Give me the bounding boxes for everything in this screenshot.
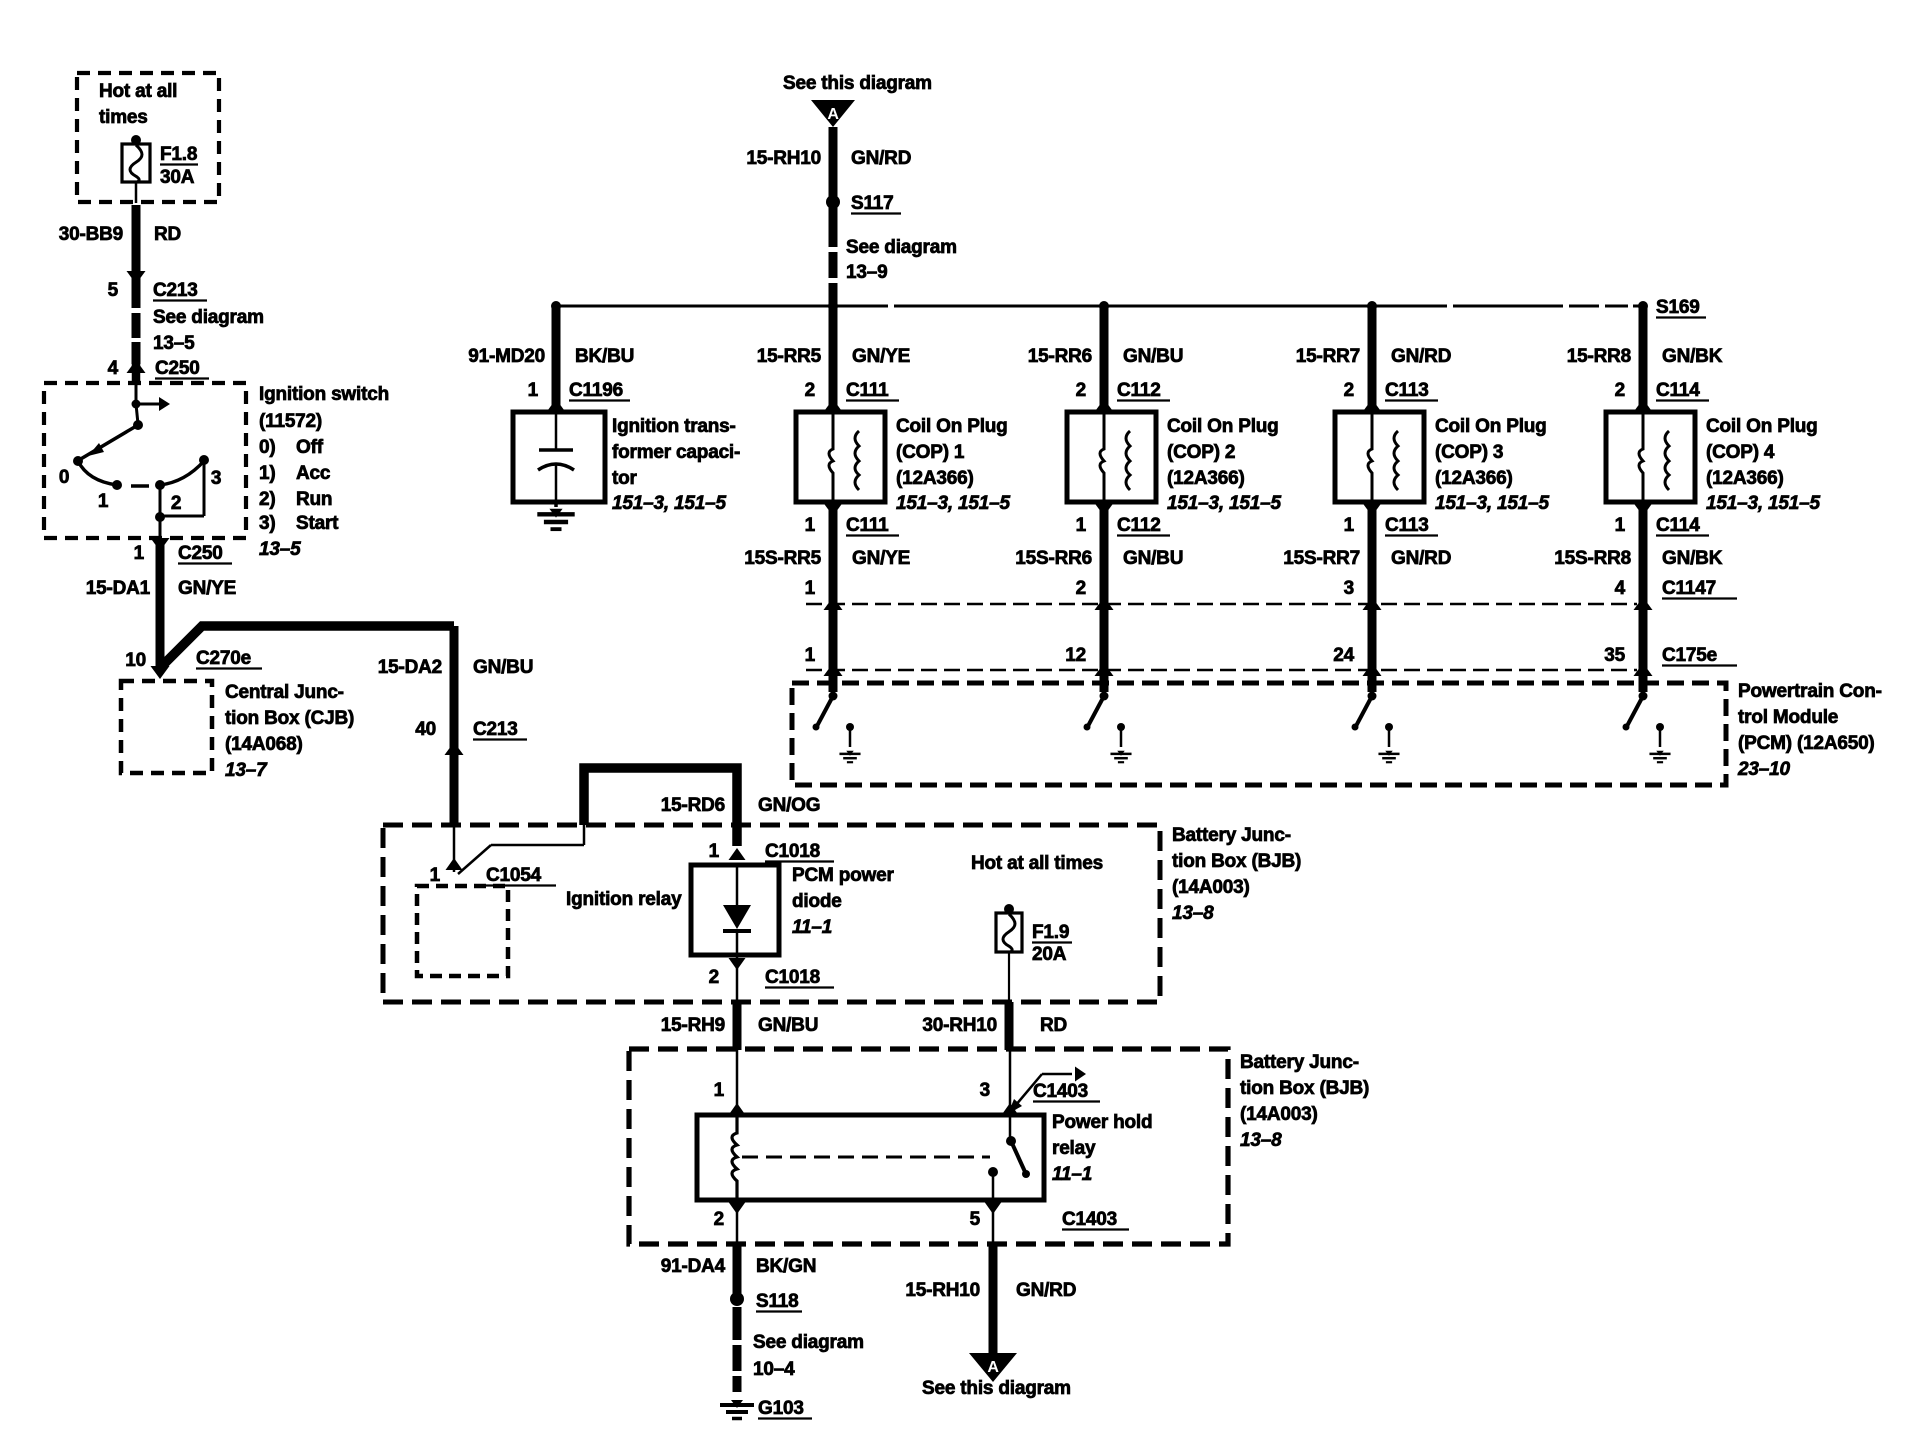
svg-text:151–3, 151–5: 151–3, 151–5 [896, 493, 1010, 514]
svg-text:12: 12 [1065, 645, 1086, 666]
svg-text:C250: C250 [155, 358, 200, 379]
svg-text:23–10: 23–10 [1737, 759, 1790, 780]
svg-text:(14A003): (14A003) [1240, 1104, 1318, 1125]
svg-text:tion Box (BJB): tion Box (BJB) [1172, 851, 1301, 872]
svg-text:20A: 20A [1032, 944, 1067, 965]
svg-text:40: 40 [415, 719, 436, 740]
svg-text:C112: C112 [1117, 380, 1161, 401]
svg-text:C1147: C1147 [1662, 578, 1716, 599]
svg-text:1): 1) [259, 463, 276, 484]
svg-text:15-RR7: 15-RR7 [1296, 346, 1360, 367]
svg-text:(11572): (11572) [259, 411, 322, 432]
svg-text:15-RH10: 15-RH10 [905, 1280, 980, 1301]
svg-text:(12A366): (12A366) [1435, 468, 1513, 489]
svg-text:RD: RD [154, 224, 181, 245]
svg-text:Run: Run [296, 489, 332, 510]
svg-text:2: 2 [171, 493, 181, 514]
svg-text:1: 1 [1615, 515, 1626, 536]
svg-text:2: 2 [714, 1209, 724, 1230]
svg-text:C111: C111 [846, 380, 889, 401]
svg-text:diode: diode [792, 891, 842, 912]
svg-text:A: A [987, 1359, 999, 1376]
svg-text:151–3, 151–5: 151–3, 151–5 [1435, 493, 1549, 514]
svg-text:(12A366): (12A366) [1167, 468, 1245, 489]
svg-text:Ignition switch: Ignition switch [259, 384, 389, 405]
svg-text:Powertrain Con-: Powertrain Con- [1738, 681, 1882, 702]
svg-text:Battery Junc-: Battery Junc- [1172, 825, 1291, 846]
svg-text:15-RH9: 15-RH9 [661, 1015, 725, 1036]
svg-text:C112: C112 [1117, 515, 1161, 536]
svg-text:1: 1 [709, 841, 720, 862]
svg-text:C270e: C270e [196, 648, 251, 669]
svg-text:15-RH10: 15-RH10 [746, 148, 821, 169]
svg-text:C113: C113 [1385, 380, 1429, 401]
svg-text:former capaci-: former capaci- [612, 442, 740, 463]
svg-text:trol Module: trol Module [1738, 707, 1838, 728]
svg-text:4: 4 [1615, 578, 1626, 599]
svg-text:(12A366): (12A366) [1706, 468, 1784, 489]
svg-text:BK/BU: BK/BU [575, 346, 634, 367]
svg-text:C1054: C1054 [486, 865, 542, 886]
svg-text:Hot at all times: Hot at all times [971, 853, 1103, 874]
svg-text:1: 1 [430, 865, 441, 886]
svg-text:Ignition trans-: Ignition trans- [612, 416, 736, 437]
svg-text:S118: S118 [756, 1291, 799, 1312]
svg-text:C1403: C1403 [1033, 1081, 1088, 1102]
svg-text:15-DA1: 15-DA1 [86, 578, 151, 599]
svg-text:C111: C111 [846, 515, 889, 536]
svg-text:(14A003): (14A003) [1172, 877, 1250, 898]
svg-text:S169: S169 [1656, 297, 1700, 318]
svg-text:Off: Off [296, 437, 324, 458]
svg-text:1: 1 [1344, 515, 1355, 536]
svg-text:5: 5 [108, 280, 119, 301]
svg-text:Coil On Plug: Coil On Plug [1167, 416, 1279, 437]
svg-text:C113: C113 [1385, 515, 1429, 536]
svg-text:GN/RD: GN/RD [851, 148, 911, 169]
svg-text:(COP) 2: (COP) 2 [1167, 442, 1235, 463]
svg-text:G103: G103 [758, 1398, 804, 1419]
svg-text:S117: S117 [851, 193, 894, 214]
svg-text:tion Box (BJB): tion Box (BJB) [1240, 1078, 1369, 1099]
svg-text:15S-RR8: 15S-RR8 [1554, 548, 1631, 569]
svg-text:1: 1 [805, 515, 816, 536]
svg-text:GN/YE: GN/YE [852, 548, 910, 569]
svg-text:GN/RD: GN/RD [1391, 346, 1451, 367]
svg-text:15-RR8: 15-RR8 [1567, 346, 1631, 367]
svg-text:times: times [99, 107, 148, 128]
svg-text:13–5: 13–5 [259, 539, 301, 560]
svg-text:C1196: C1196 [569, 380, 623, 401]
svg-text:GN/RD: GN/RD [1391, 548, 1451, 569]
svg-text:GN/BU: GN/BU [758, 1015, 818, 1036]
svg-text:See this diagram: See this diagram [922, 1378, 1071, 1399]
svg-text:GN/BU: GN/BU [1123, 548, 1183, 569]
svg-text:GN/OG: GN/OG [758, 795, 820, 816]
svg-text:C114: C114 [1656, 380, 1700, 401]
svg-text:4: 4 [108, 358, 119, 379]
svg-text:3: 3 [980, 1080, 990, 1101]
svg-text:15S-RR6: 15S-RR6 [1015, 548, 1092, 569]
svg-text:GN/BK: GN/BK [1662, 548, 1723, 569]
svg-text:GN/YE: GN/YE [178, 578, 236, 599]
svg-text:1: 1 [714, 1080, 725, 1101]
svg-text:151–3, 151–5: 151–3, 151–5 [1167, 493, 1281, 514]
svg-text:(COP) 4: (COP) 4 [1706, 442, 1775, 463]
svg-text:(12A366): (12A366) [896, 468, 974, 489]
svg-text:C1018: C1018 [765, 967, 820, 988]
svg-text:Coil On Plug: Coil On Plug [1706, 416, 1818, 437]
svg-text:F1.9: F1.9 [1032, 922, 1069, 943]
svg-text:2: 2 [709, 967, 719, 988]
svg-text:2: 2 [1076, 380, 1086, 401]
svg-text:C114: C114 [1656, 515, 1700, 536]
svg-text:PCM power: PCM power [792, 865, 894, 886]
svg-text:Battery Junc-: Battery Junc- [1240, 1052, 1359, 1073]
svg-text:A: A [827, 106, 839, 123]
svg-text:5: 5 [970, 1209, 981, 1230]
svg-text:1: 1 [805, 578, 816, 599]
svg-text:35: 35 [1604, 645, 1625, 666]
svg-text:1: 1 [805, 645, 816, 666]
svg-text:15-RR5: 15-RR5 [757, 346, 822, 367]
svg-text:Central Junc-: Central Junc- [225, 682, 344, 703]
svg-text:BK/GN: BK/GN [756, 1256, 816, 1277]
svg-text:91-DA4: 91-DA4 [661, 1256, 726, 1277]
svg-text:Start: Start [296, 513, 339, 534]
svg-text:15-RR6: 15-RR6 [1028, 346, 1092, 367]
svg-text:11–1: 11–1 [1052, 1164, 1092, 1185]
svg-text:13–8: 13–8 [1172, 903, 1214, 924]
svg-text:See diagram: See diagram [846, 237, 957, 258]
svg-text:13–9: 13–9 [846, 262, 887, 283]
svg-text:Hot at all: Hot at all [99, 81, 177, 102]
svg-text:GN/BU: GN/BU [1123, 346, 1183, 367]
svg-text:(14A068): (14A068) [225, 734, 303, 755]
svg-text:See this diagram: See this diagram [783, 73, 932, 94]
svg-text:3: 3 [1344, 578, 1354, 599]
svg-text:C1018: C1018 [765, 841, 820, 862]
svg-text:GN/RD: GN/RD [1016, 1280, 1076, 1301]
svg-text:1: 1 [98, 491, 109, 512]
svg-text:2: 2 [805, 380, 815, 401]
svg-text:Ignition relay: Ignition relay [566, 889, 682, 910]
svg-text:tion Box (CJB): tion Box (CJB) [225, 708, 354, 729]
svg-text:151–3, 151–5: 151–3, 151–5 [1706, 493, 1820, 514]
svg-text:C250: C250 [178, 543, 223, 564]
svg-text:24: 24 [1333, 645, 1354, 666]
svg-text:151–3, 151–5: 151–3, 151–5 [612, 493, 726, 514]
svg-text:10–4: 10–4 [753, 1359, 795, 1380]
svg-text:(PCM) (12A650): (PCM) (12A650) [1738, 733, 1875, 754]
svg-text:15S-RR5: 15S-RR5 [744, 548, 821, 569]
svg-text:GN/BK: GN/BK [1662, 346, 1723, 367]
svg-text:relay: relay [1052, 1138, 1096, 1159]
svg-text:30-BB9: 30-BB9 [59, 224, 123, 245]
svg-text:1: 1 [528, 380, 539, 401]
svg-text:15S-RR7: 15S-RR7 [1283, 548, 1360, 569]
svg-text:2: 2 [1076, 578, 1086, 599]
svg-text:GN/BU: GN/BU [473, 657, 533, 678]
svg-text:0: 0 [59, 467, 69, 488]
svg-text:13–7: 13–7 [225, 760, 268, 781]
svg-text:C213: C213 [473, 719, 518, 740]
svg-text:2): 2) [259, 489, 276, 510]
svg-text:(COP) 3: (COP) 3 [1435, 442, 1503, 463]
svg-text:10: 10 [125, 650, 146, 671]
svg-text:30A: 30A [160, 167, 195, 188]
svg-text:3: 3 [211, 468, 221, 489]
svg-text:91-MD20: 91-MD20 [468, 346, 545, 367]
svg-text:2: 2 [1615, 380, 1625, 401]
svg-text:30-RH10: 30-RH10 [922, 1015, 997, 1036]
svg-text:13–8: 13–8 [1240, 1130, 1282, 1151]
svg-text:1: 1 [1076, 515, 1087, 536]
svg-text:Power hold: Power hold [1052, 1112, 1152, 1133]
svg-text:C1403: C1403 [1062, 1209, 1117, 1230]
svg-text:C175e: C175e [1662, 645, 1717, 666]
svg-text:tor: tor [612, 468, 638, 489]
svg-text:See diagram: See diagram [153, 307, 264, 328]
svg-text:0): 0) [259, 437, 276, 458]
svg-text:11–1: 11–1 [792, 917, 832, 938]
svg-text:Coil On Plug: Coil On Plug [896, 416, 1008, 437]
svg-text:F1.8: F1.8 [160, 144, 197, 165]
svg-text:RD: RD [1040, 1015, 1067, 1036]
svg-text:13–5: 13–5 [153, 333, 195, 354]
svg-text:1: 1 [134, 543, 145, 564]
svg-text:C213: C213 [153, 280, 198, 301]
svg-text:See diagram: See diagram [753, 1332, 864, 1353]
svg-text:Coil On Plug: Coil On Plug [1435, 416, 1547, 437]
svg-text:(COP) 1: (COP) 1 [896, 442, 965, 463]
svg-text:15-DA2: 15-DA2 [378, 657, 442, 678]
svg-text:2: 2 [1344, 380, 1354, 401]
svg-text:Acc: Acc [296, 463, 331, 484]
svg-text:3): 3) [259, 513, 276, 534]
svg-text:GN/YE: GN/YE [852, 346, 910, 367]
svg-text:15-RD6: 15-RD6 [661, 795, 725, 816]
